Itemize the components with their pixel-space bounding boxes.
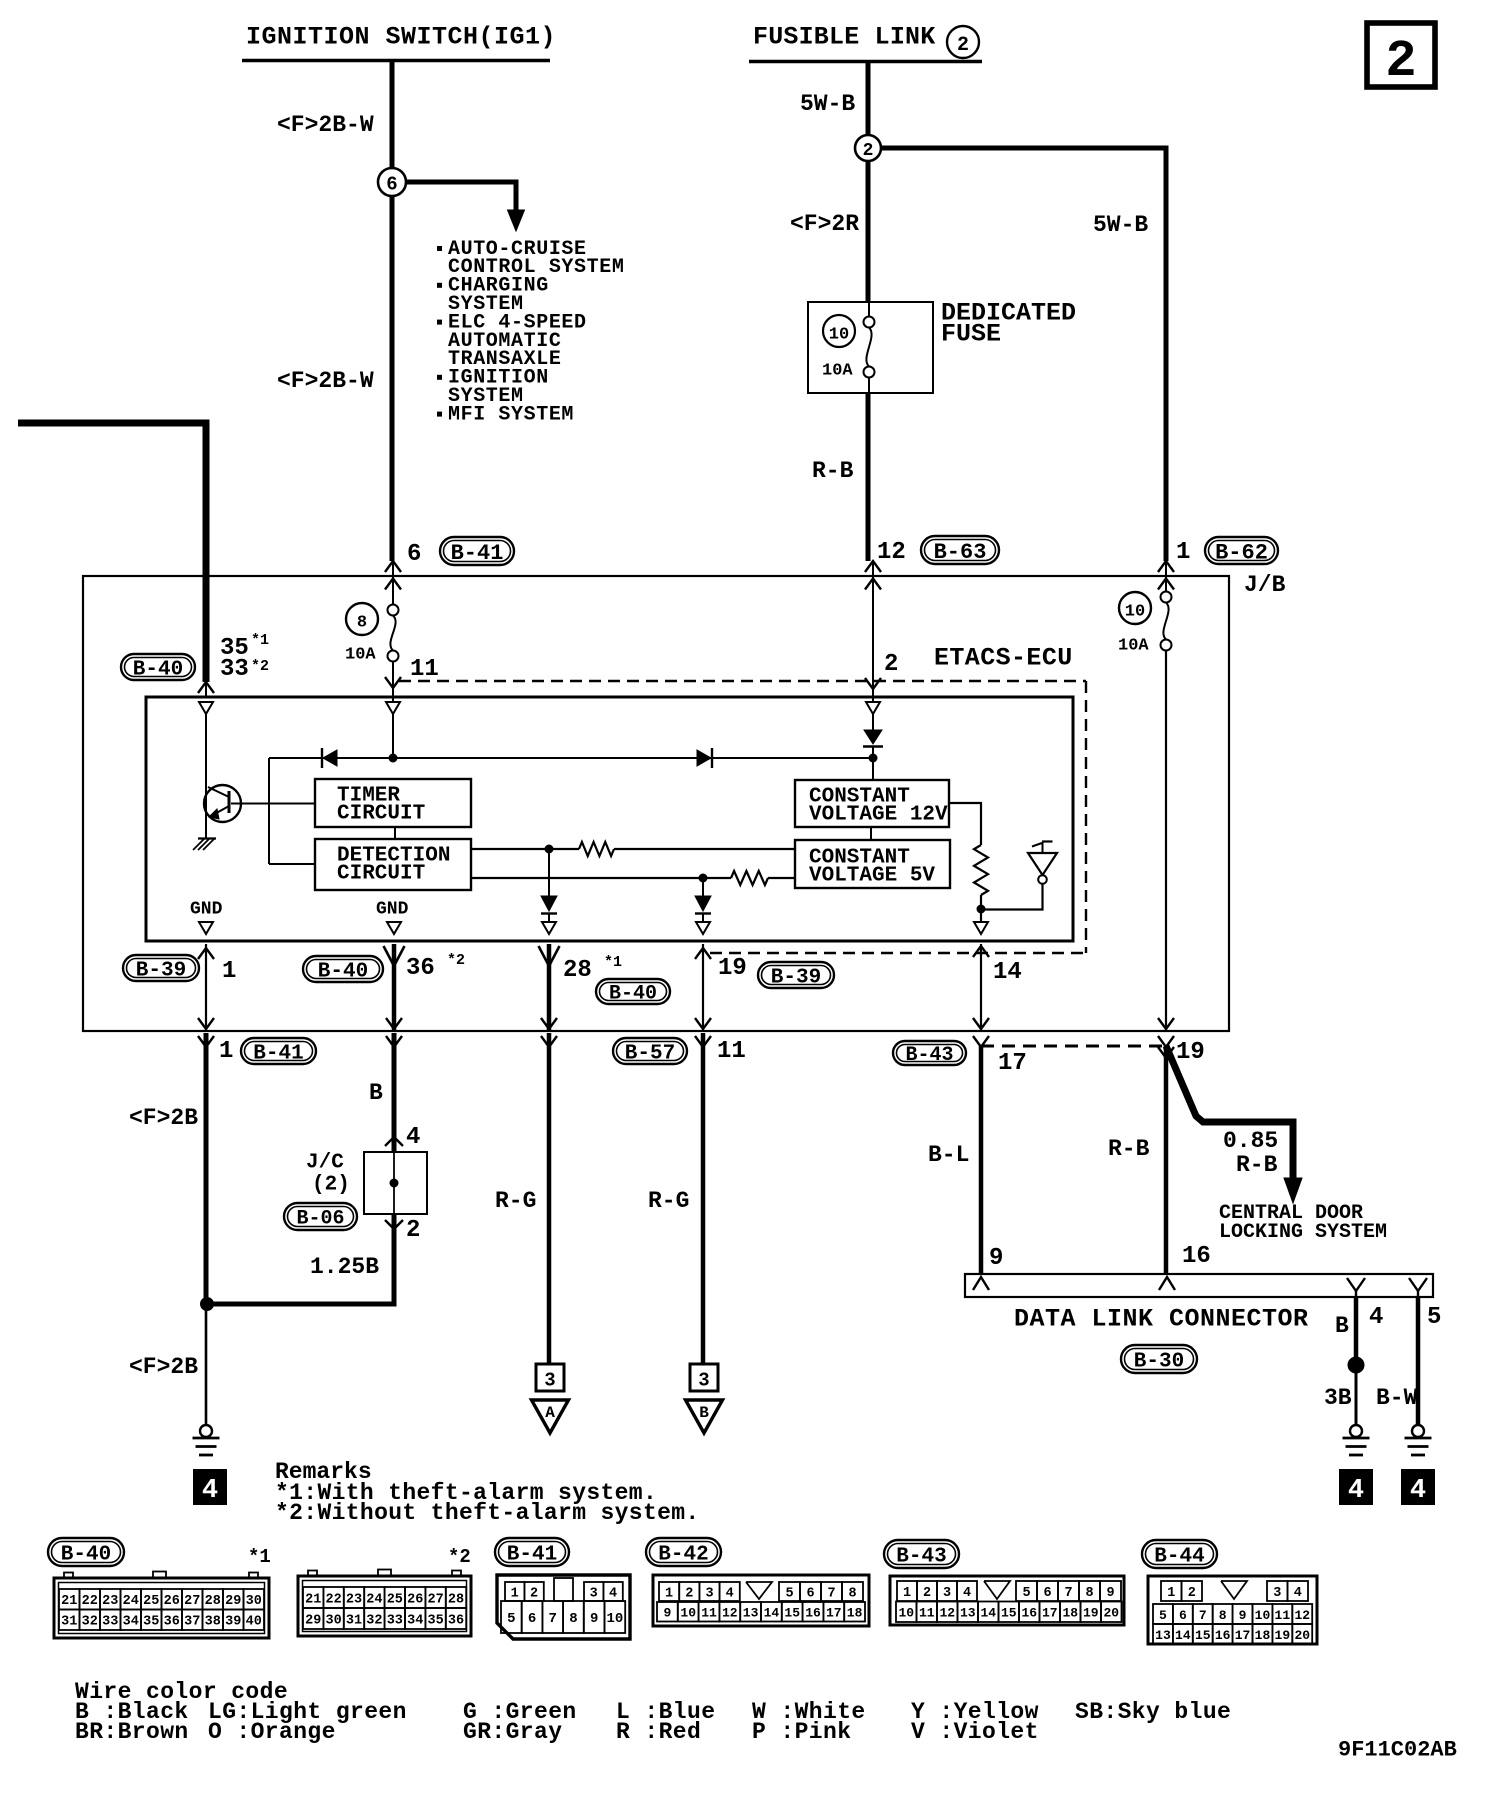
svg-text:35: 35 [143, 1615, 159, 1630]
label 16 [1182, 1243, 1211, 1270]
svg-text:16: 16 [805, 1606, 821, 1621]
svg-text:9: 9 [663, 1606, 671, 1621]
svg-text:26: 26 [164, 1594, 180, 1609]
ground (internal, transistor emitter) [193, 839, 216, 851]
ground reference box 4 (pin4) [1340, 1470, 1372, 1506]
label (B-43) 17 19 [893, 1039, 1205, 1077]
svg-text:28: 28 [205, 1594, 221, 1609]
connector crossing B-43 pin17 at J/B bottom [973, 1018, 989, 1047]
connector crossing pin 12 B-63 at J/B top [865, 561, 881, 600]
wire R-G from pin 28 to connector A [547, 1033, 552, 1364]
diode D4 to pin 28 [541, 853, 557, 922]
connector B-43 pinout [884, 1540, 1124, 1625]
svg-text:B-30: B-30 [1134, 1351, 1184, 1374]
label (B-40) 35*1 33*2 [121, 632, 269, 683]
value label <F>2B upper [129, 1105, 198, 1131]
page number 2 box [1367, 23, 1435, 91]
connector B-43 dashed link [981, 1045, 1165, 1048]
svg-text:4: 4 [1369, 1304, 1383, 1331]
svg-text:P :Pink: P :Pink [752, 1719, 851, 1745]
svg-text:19: 19 [718, 955, 747, 982]
svg-text:B-40: B-40 [318, 961, 368, 984]
label (B-40) 36*2 [303, 952, 465, 983]
node junction 6 (circled) [378, 168, 406, 196]
svg-text:6: 6 [528, 1611, 536, 1627]
svg-text:R-B: R-B [1236, 1152, 1278, 1178]
svg-text:10A: 10A [822, 362, 853, 381]
label J/C (2) (B-06) [284, 1152, 357, 1231]
value label 3B B-W [1324, 1385, 1418, 1411]
svg-text:1: 1 [219, 1038, 233, 1065]
inter-page connector 3-A [532, 1364, 569, 1433]
svg-text:*1: *1 [251, 632, 269, 649]
svg-text:3: 3 [698, 1370, 709, 1392]
svg-text:32: 32 [366, 1613, 382, 1628]
value label B [369, 1080, 383, 1106]
svg-text:B-40: B-40 [133, 659, 183, 682]
svg-text:38: 38 [205, 1615, 221, 1630]
svg-text:24: 24 [366, 1592, 382, 1607]
block DATA LINK CONNECTOR B-30 [965, 1274, 1433, 1297]
svg-text:B-W: B-W [1376, 1385, 1418, 1411]
svg-text:R-G: R-G [648, 1188, 689, 1214]
svg-text:6: 6 [1179, 1608, 1187, 1623]
svg-text:12: 12 [877, 539, 906, 566]
value label <F>2R [790, 211, 859, 237]
svg-text:4: 4 [1348, 1476, 1364, 1506]
ECU pin GND-left triangle [199, 922, 213, 934]
svg-text:B-L: B-L [928, 1142, 969, 1168]
svg-text:37: 37 [184, 1615, 200, 1630]
label 2 (pin) [884, 651, 898, 678]
transistor Q1 [204, 785, 315, 838]
svg-text:*1: *1 [604, 954, 622, 971]
wire R-B from fuse to J/B [866, 393, 871, 561]
svg-text:GND: GND [376, 899, 409, 919]
wire B-W pin5 to ground [1416, 1297, 1421, 1425]
wire pin 28 to B-40 [539, 944, 560, 1030]
block CONSTANT VOLTAGE 5V [795, 840, 950, 888]
svg-text:40: 40 [246, 1615, 262, 1630]
label 28*1 (B-40) [563, 954, 670, 1006]
svg-text:B-43: B-43 [905, 1044, 953, 1067]
node junction ground bus [201, 1298, 214, 1311]
fuse 10 10A inside J/B [1118, 591, 1172, 656]
svg-text:11: 11 [919, 1606, 935, 1621]
svg-text:BR:Brown: BR:Brown [75, 1719, 189, 1745]
svg-text:DATA LINK CONNECTOR: DATA LINK CONNECTOR [1014, 1305, 1309, 1334]
svg-text:20: 20 [1294, 1628, 1310, 1643]
svg-text:9: 9 [590, 1611, 598, 1627]
svg-text:19: 19 [1275, 1628, 1291, 1643]
connector pin 9 arrow [973, 1277, 989, 1290]
svg-text:3B: 3B [1324, 1385, 1352, 1411]
svg-text:18: 18 [1062, 1606, 1078, 1621]
wire B-L pin17 to data link 9 [979, 1046, 984, 1274]
svg-text:1: 1 [665, 1586, 673, 1601]
svg-text:9F11C02AB: 9F11C02AB [1338, 1737, 1457, 1762]
svg-text:24: 24 [123, 1594, 139, 1609]
svg-text:17: 17 [1235, 1628, 1251, 1643]
label DEDICATED FUSE [941, 299, 1076, 349]
inter-page connector 3-B [686, 1364, 723, 1433]
value label R-B [812, 458, 854, 484]
fuse 8 10A inside J/B [345, 597, 399, 676]
fuse DEDICATED FUSE 10A (10) [808, 302, 933, 393]
svg-text:31: 31 [61, 1615, 77, 1630]
node junction 2 (circled) [855, 135, 881, 161]
svg-text:B-44: B-44 [1154, 1546, 1204, 1569]
svg-text:*2: *2 [447, 952, 465, 969]
diode D2 [697, 748, 712, 768]
wire pin 14 down [973, 944, 989, 1030]
label 11 [410, 656, 439, 683]
svg-text:21: 21 [61, 1594, 77, 1609]
node other-systems list [437, 238, 624, 427]
value label <F>2B lower [129, 1354, 198, 1380]
wire color code legend [75, 1679, 1231, 1745]
svg-text:13: 13 [743, 1606, 759, 1621]
svg-text:12: 12 [939, 1606, 955, 1621]
wire timer-detection link [394, 827, 396, 839]
svg-text:17: 17 [998, 1050, 1027, 1077]
ECU pin 19 triangle [696, 922, 710, 934]
label 2 (J/C pin) [406, 1217, 420, 1244]
svg-text:17: 17 [1042, 1606, 1058, 1621]
wire R-B pin19 to data link 16 [1164, 1046, 1169, 1274]
svg-text:2: 2 [863, 141, 874, 161]
svg-text:28: 28 [563, 957, 592, 984]
svg-text:<F>2B-W: <F>2B-W [277, 368, 374, 394]
node IGNITION SWITCH (IG1) title [242, 23, 556, 61]
resistor R3 [974, 845, 988, 895]
svg-text:11: 11 [1275, 1608, 1291, 1623]
wire battery feed to B-40 pin 35/33 [18, 423, 206, 682]
ETACS-ECU dashed outline [399, 681, 1086, 953]
svg-text:16: 16 [1215, 1628, 1231, 1643]
label B 4 5 [1335, 1304, 1441, 1339]
node junction pin2/top bus [869, 754, 877, 762]
svg-text:34: 34 [123, 1615, 139, 1630]
svg-text:V :Violet: V :Violet [911, 1719, 1039, 1745]
svg-text:B-62: B-62 [1215, 540, 1268, 565]
svg-text:J/B: J/B [1244, 572, 1286, 598]
svg-text:29: 29 [305, 1613, 321, 1628]
svg-text:31: 31 [346, 1613, 362, 1628]
svg-text:10: 10 [1255, 1608, 1271, 1623]
svg-text:33: 33 [387, 1613, 403, 1628]
svg-text:13: 13 [1155, 1628, 1171, 1643]
svg-text:ETACS-ECU: ETACS-ECU [934, 644, 1073, 673]
svg-text:36: 36 [448, 1613, 464, 1628]
svg-text:11: 11 [701, 1606, 717, 1621]
svg-text:2: 2 [1385, 32, 1416, 91]
ground reference box 4 (pin5) [1402, 1470, 1434, 1506]
svg-text:14: 14 [764, 1606, 780, 1621]
svg-text:23: 23 [102, 1594, 118, 1609]
svg-text:20: 20 [1103, 1606, 1119, 1621]
wire B down to J/C [392, 1033, 397, 1152]
svg-text:11: 11 [717, 1038, 746, 1065]
connector pin 5 fork [1409, 1278, 1427, 1297]
wire branch 5W-B to B-62 [881, 148, 1166, 561]
svg-text:21: 21 [305, 1592, 321, 1607]
svg-text:VOLTAGE 5V: VOLTAGE 5V [809, 865, 935, 888]
svg-text:25: 25 [387, 1592, 403, 1607]
wire branch to other systems [406, 182, 525, 231]
svg-text:15: 15 [1001, 1606, 1017, 1621]
svg-text:27: 27 [184, 1594, 200, 1609]
svg-text:4: 4 [406, 1124, 420, 1151]
block TIMER CIRCUIT [315, 779, 471, 827]
svg-text:4: 4 [202, 1476, 218, 1506]
connector B-44 pinout [1142, 1540, 1317, 1644]
svg-text:8: 8 [848, 1586, 856, 1601]
svg-text:2: 2 [530, 1586, 538, 1601]
wire fusible link feed 5W-B [866, 63, 871, 135]
svg-text:2: 2 [884, 651, 898, 678]
connector crossing R-G wire A at J/B bottom [541, 1018, 557, 1047]
svg-text:11: 11 [410, 656, 439, 683]
value label B-L [928, 1142, 969, 1168]
svg-text:SB:Sky blue: SB:Sky blue [1075, 1699, 1231, 1725]
svg-text:8: 8 [569, 1611, 577, 1627]
value label <F>2B-W upper [277, 112, 374, 138]
svg-text:1: 1 [511, 1586, 519, 1601]
svg-text:B-57: B-57 [625, 1043, 675, 1066]
svg-text:39: 39 [225, 1615, 241, 1630]
label 12 (B-63) [877, 536, 999, 566]
svg-text:7: 7 [1199, 1608, 1207, 1623]
svg-text:R-G: R-G [495, 1188, 536, 1214]
wire detection output upper with resistor R1 [471, 842, 795, 856]
ground (pin 5) [1405, 1425, 1432, 1455]
connector B-40 *2 pinout [298, 1546, 471, 1636]
svg-text:B: B [1335, 1313, 1349, 1339]
svg-text:6: 6 [806, 1586, 814, 1601]
svg-text:7: 7 [1064, 1586, 1072, 1601]
svg-text:1: 1 [903, 1586, 911, 1601]
svg-text:LOCKING SYSTEM: LOCKING SYSTEM [1219, 1221, 1387, 1244]
svg-text:12: 12 [1294, 1608, 1310, 1623]
svg-text:5W-B: 5W-B [1093, 212, 1148, 238]
svg-text:22: 22 [82, 1594, 98, 1609]
svg-text:18: 18 [1255, 1628, 1271, 1643]
svg-text:3: 3 [1273, 1586, 1281, 1601]
svg-text:R :Red: R :Red [616, 1719, 701, 1745]
svg-text:34: 34 [407, 1613, 423, 1628]
wire 1.25B from J/C to ground bus [208, 1214, 403, 1304]
svg-text:10: 10 [829, 326, 849, 345]
svg-text:14: 14 [980, 1606, 996, 1621]
svg-text:16: 16 [1021, 1606, 1037, 1621]
svg-text:O :Orange: O :Orange [208, 1719, 336, 1745]
svg-text:10A: 10A [1118, 637, 1149, 656]
svg-text:6: 6 [386, 174, 397, 196]
svg-text:R-B: R-B [1108, 1136, 1150, 1162]
svg-text:26: 26 [407, 1592, 423, 1607]
svg-text:19: 19 [1083, 1606, 1099, 1621]
ECU pin 14 triangle [974, 922, 988, 934]
connector arrow into ECU pin 35/33 [198, 682, 214, 697]
svg-text:10: 10 [606, 1611, 623, 1627]
connector crossing pin 6 B-41 at J/B top [385, 561, 401, 597]
remarks note [275, 1459, 700, 1526]
ECU pin GND-mid triangle [387, 922, 401, 934]
svg-text:4: 4 [1410, 1476, 1426, 1506]
svg-text:*2: *2 [448, 1546, 471, 1568]
svg-text:5: 5 [1022, 1586, 1030, 1601]
label ETACS-ECU [934, 644, 1073, 673]
svg-text:15: 15 [784, 1606, 800, 1621]
value label 5W-B right [1093, 212, 1148, 238]
diode D3 (from pin 2) [863, 730, 883, 780]
svg-text:4: 4 [726, 1586, 734, 1601]
svg-text:<F>2B: <F>2B [129, 1354, 198, 1380]
svg-text:5: 5 [507, 1611, 515, 1627]
svg-text:7: 7 [549, 1611, 557, 1627]
svg-text:1.25B: 1.25B [310, 1254, 379, 1280]
block CONSTANT VOLTAGE 12V [795, 780, 949, 827]
svg-text:4: 4 [963, 1586, 971, 1601]
svg-text:5: 5 [1159, 1608, 1167, 1623]
svg-text:J/C: J/C [306, 1152, 344, 1175]
label 6 (B-41) [407, 537, 514, 568]
svg-text:(2): (2) [312, 1174, 350, 1197]
svg-text:22: 22 [325, 1592, 341, 1607]
label 1 (B-41) [219, 1038, 316, 1066]
svg-text:B-40: B-40 [61, 1544, 111, 1567]
svg-text:1: 1 [1176, 539, 1190, 566]
svg-text:15: 15 [1195, 1628, 1211, 1643]
wire detection output lower with resistor R2 [471, 871, 795, 885]
svg-text:<F>2B-W: <F>2B-W [277, 112, 374, 138]
svg-text:B-42: B-42 [658, 1544, 708, 1567]
svg-text:16: 16 [1182, 1243, 1211, 1270]
svg-text:28: 28 [448, 1592, 464, 1607]
svg-text:27: 27 [427, 1592, 443, 1607]
value label 5W-B left [800, 91, 855, 117]
svg-text:10: 10 [898, 1606, 914, 1621]
ground reference box 4 (left) [194, 1470, 226, 1506]
svg-text:2: 2 [923, 1586, 931, 1601]
svg-text:FUSE: FUSE [941, 320, 1001, 349]
connector pin 16 arrow [1159, 1277, 1175, 1290]
connector crossing B-43 pin19 at J/B bottom [1158, 1018, 1174, 1047]
svg-text:32: 32 [82, 1615, 98, 1630]
svg-text:VOLTAGE 12V: VOLTAGE 12V [809, 804, 948, 827]
svg-text:9: 9 [1239, 1608, 1247, 1623]
label J/B [1244, 572, 1286, 598]
value label 1.25B [310, 1254, 379, 1280]
svg-text:5W-B: 5W-B [800, 91, 855, 117]
node CENTRAL DOOR LOCKING SYSTEM [1219, 1202, 1387, 1244]
svg-text:0.85: 0.85 [1223, 1128, 1278, 1154]
svg-text:36: 36 [406, 955, 435, 982]
svg-text:2: 2 [957, 34, 969, 57]
svg-text:3: 3 [590, 1586, 598, 1601]
svg-text:10A: 10A [345, 646, 376, 665]
svg-text:1: 1 [1167, 1586, 1175, 1601]
svg-text:B-41: B-41 [253, 1043, 303, 1066]
svg-text:5: 5 [785, 1586, 793, 1601]
svg-text:3: 3 [705, 1586, 713, 1601]
svg-text:B-39: B-39 [771, 967, 821, 990]
connector pin 4 fork [1347, 1278, 1365, 1297]
ECU pin 35/33 triangle [199, 702, 213, 786]
svg-text:B-06: B-06 [296, 1208, 344, 1231]
block DETECTION CIRCUIT [315, 839, 471, 890]
svg-text:B-41: B-41 [507, 1544, 557, 1567]
svg-text:10: 10 [1125, 603, 1145, 622]
connector crossing B-41 pin1 at J/B bottom [198, 1018, 214, 1047]
connector arrow pin 11 into ECU [385, 676, 401, 702]
svg-text:14: 14 [993, 959, 1022, 986]
svg-text:R-B: R-B [812, 458, 854, 484]
svg-text:IGNITION SWITCH(IG1): IGNITION SWITCH(IG1) [246, 23, 556, 52]
connector crossing B-57 pin11 at J/B bottom [695, 1018, 711, 1047]
svg-text:<F>2B: <F>2B [129, 1105, 198, 1131]
ECU pin 28 triangle [542, 922, 556, 934]
svg-text:4: 4 [1294, 1586, 1302, 1601]
ground (pin 4) [1343, 1425, 1370, 1455]
svg-text:7: 7 [827, 1586, 835, 1601]
svg-text:2: 2 [685, 1586, 693, 1601]
wire from fuse 10 down inside J/B [1165, 651, 1167, 1031]
ECU inner box [146, 697, 1073, 941]
wire <F>2B down from B-41 pin1 [204, 1033, 209, 1304]
svg-text:33: 33 [220, 656, 249, 683]
svg-text:<F>2R: <F>2R [790, 211, 859, 237]
svg-text:6: 6 [1043, 1586, 1051, 1601]
wire pin 19 to B-39 [695, 944, 711, 1030]
svg-text:8: 8 [1219, 1608, 1227, 1623]
svg-text:30: 30 [325, 1613, 341, 1628]
wire B pin4 to ground [1348, 1297, 1364, 1425]
wire GND-mid to B-40 pin 36 [384, 944, 405, 1030]
svg-text:9: 9 [1106, 1586, 1114, 1601]
svg-text:A: A [545, 1404, 555, 1422]
wire 0.85 R-B branch to central door locking [1166, 1046, 1302, 1203]
svg-text:*2: *2 [251, 658, 269, 675]
connector crossing J/C riser at J/B bottom [386, 1018, 402, 1047]
label 9 [989, 1245, 1003, 1272]
node FUSIBLE LINK 2 title [749, 23, 982, 62]
wire GND-left to B-39 pin 1 [198, 944, 214, 1030]
connector crossing pin 1 B-62 at J/B top [1158, 561, 1174, 591]
wire internal top bus [269, 757, 873, 759]
svg-text:13: 13 [960, 1606, 976, 1621]
svg-text:36: 36 [164, 1615, 180, 1630]
svg-text:9: 9 [989, 1245, 1003, 1272]
svg-text:MFI SYSTEM: MFI SYSTEM [448, 403, 574, 426]
value label 0.85 R-B [1223, 1128, 1278, 1178]
svg-text:33: 33 [102, 1615, 118, 1630]
svg-text:B-63: B-63 [934, 540, 987, 565]
svg-text:14: 14 [1175, 1628, 1191, 1643]
label 19 (B-39) [718, 955, 834, 990]
ECU pin 11 triangle [386, 702, 400, 758]
wire CV12V-CV5V link [870, 827, 872, 840]
junction connector J/C (2) B-06 [364, 1137, 427, 1214]
value label R-G left [495, 1188, 536, 1214]
label 4 (J/C pin) [406, 1124, 420, 1151]
label DATA LINK CONNECTOR [1014, 1305, 1309, 1334]
label (B-30) [1121, 1345, 1197, 1374]
svg-text:3: 3 [544, 1370, 555, 1392]
label 1 (B-62) [1176, 537, 1278, 566]
svg-text:3: 3 [943, 1586, 951, 1601]
